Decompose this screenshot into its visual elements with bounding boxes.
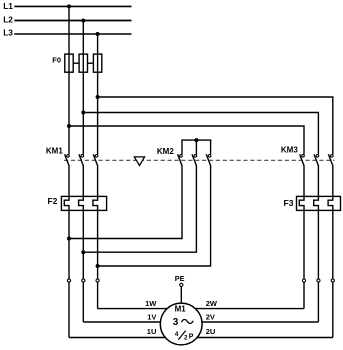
junction KM2 bar center — [194, 138, 198, 142]
junction star tap 1W — [96, 264, 100, 268]
terminal circle 2U feed — [331, 279, 334, 282]
F0 link bar 1-2 — [73, 62, 79, 64]
F0 link bar 2-3 — [88, 62, 94, 64]
junction tap L3 feed — [96, 95, 100, 99]
junction L2 drop — [81, 19, 85, 23]
svg-text:F0: F0 — [52, 56, 61, 65]
svg-text:L3: L3 — [3, 27, 13, 37]
junction star tap 1U — [67, 237, 71, 241]
overload relay F3 box — [297, 196, 341, 210]
slash of 4/2 — [178, 331, 185, 340]
F2 heater element 2 — [79, 196, 84, 210]
contactor KM1 pole2 — [79, 154, 84, 165]
wire L1 to F0 pole1 — [68, 6, 70, 54]
wire F2 pole1 down to motor 1U — [68, 210, 70, 337]
contactor KM2 pole2 — [192, 154, 197, 165]
mechanical linkage dashed line — [64, 159, 335, 161]
wire KM2 pole3 to tap 1W — [98, 165, 211, 266]
terminal circle PE — [180, 283, 183, 286]
terminal circle 2W feed — [302, 279, 305, 282]
motor M1 body — [160, 303, 202, 345]
svg-text:3: 3 — [173, 317, 179, 328]
svg-text:M1: M1 — [175, 305, 187, 314]
wire feed L1 to KM3 pole1 — [69, 126, 304, 154]
KM2 bridge bar — [182, 140, 211, 154]
junction L3 drop — [96, 32, 100, 36]
wire KM3 pole2 to F3 — [317, 165, 319, 196]
svg-text:2W: 2W — [206, 299, 218, 308]
wire 1U row — [69, 337, 165, 339]
svg-text:2: 2 — [184, 335, 188, 342]
svg-text:2V: 2V — [206, 312, 215, 321]
svg-text:KM1: KM1 — [46, 146, 63, 155]
junction tap L1 feed — [67, 124, 71, 128]
overload relay F2 box — [61, 196, 106, 210]
wire F3 pole3 down to motor 2U — [332, 210, 334, 337]
wire 2V row — [202, 321, 318, 323]
contactor KM2 pole1 — [178, 154, 183, 165]
terminal circle 1V feed — [82, 279, 85, 282]
F2 heater element 3 — [93, 196, 98, 210]
terminal circle 1W feed — [96, 279, 99, 282]
junction star tap 1V — [81, 250, 85, 254]
wire F0 pole3 to KM1 pole3 — [97, 72, 99, 154]
svg-text:KM3: KM3 — [281, 146, 298, 155]
wire feed L2 to KM3 pole2 — [83, 113, 318, 155]
wire F0 pole1 to KM1 pole1 — [68, 72, 70, 154]
svg-text:2U: 2U — [206, 327, 216, 336]
wire F2 pole2 down to motor 1V — [82, 210, 84, 322]
F3 heater element 3 — [328, 196, 333, 210]
svg-text:1W: 1W — [145, 299, 157, 308]
wire L3 to F0 pole3 — [97, 34, 99, 54]
wire F3 pole1 down to motor 2W — [303, 210, 305, 308]
delta symbol on linkage — [134, 157, 144, 166]
tilde symbol — [182, 319, 194, 323]
fuse F0 pole1 — [65, 54, 73, 72]
terminal circle 2V feed — [317, 279, 320, 282]
svg-text:1U: 1U — [147, 327, 157, 336]
svg-text:4: 4 — [175, 331, 179, 338]
wire KM1 pole2 to F2 — [82, 165, 84, 196]
contactor KM1 pole1 — [65, 154, 70, 165]
wire 2U row — [197, 337, 332, 339]
bus L1 — [14, 5, 131, 7]
F3 heater element 2 — [314, 196, 319, 210]
contactor KM2 pole3 — [206, 154, 211, 165]
terminal circle 1U feed — [67, 279, 70, 282]
fuse F0 pole3 — [93, 54, 101, 72]
svg-text:F3: F3 — [284, 198, 294, 208]
svg-text:KM2: KM2 — [157, 147, 174, 156]
wire F3 pole2 down to motor 2V — [317, 210, 319, 322]
svg-text:L2: L2 — [3, 14, 13, 24]
contactor KM3 pole1 — [300, 154, 305, 165]
junction L1 drop — [67, 4, 71, 8]
wire 1V row — [83, 321, 160, 323]
wire KM3 pole1 to F3 — [303, 165, 305, 196]
F3 heater element 1 — [299, 196, 304, 210]
wire F0 pole2 to KM1 pole2 — [82, 72, 84, 154]
bus L2 — [14, 20, 131, 22]
wire feed L3 to KM3 pole3 — [98, 97, 333, 154]
wire PE to motor — [180, 287, 182, 304]
contactor KM1 pole3 — [93, 154, 98, 165]
wire KM2 pole2 to tap 1V — [83, 165, 196, 252]
KM2 bridge center riser — [195, 140, 197, 154]
wire 1W row — [98, 308, 167, 310]
svg-text:F2: F2 — [47, 196, 57, 206]
svg-text:PE: PE — [175, 274, 185, 283]
svg-text:P: P — [189, 333, 194, 340]
junction tap L2 feed — [81, 111, 85, 115]
contactor KM3 pole3 — [328, 154, 333, 165]
contactor KM3 pole2 — [314, 154, 319, 165]
F2 heater element 1 — [64, 196, 69, 210]
wire KM3 pole3 to F3 — [332, 165, 334, 196]
label 4/2 P poles — [175, 331, 194, 342]
wire F2 pole3 down to motor 1W — [97, 210, 99, 308]
svg-text:1V: 1V — [147, 312, 156, 321]
bus L3 — [14, 33, 131, 35]
wire L2 to F0 pole2 — [82, 21, 84, 55]
wire KM2 pole1 to tap 1U — [69, 165, 182, 238]
wire KM1 pole1 to F2 — [68, 165, 70, 196]
wire KM1 pole3 to F2 — [97, 165, 99, 196]
svg-text:L1: L1 — [3, 1, 13, 11]
wire 2W row — [196, 308, 305, 310]
fuse F0 pole2 — [79, 54, 87, 72]
